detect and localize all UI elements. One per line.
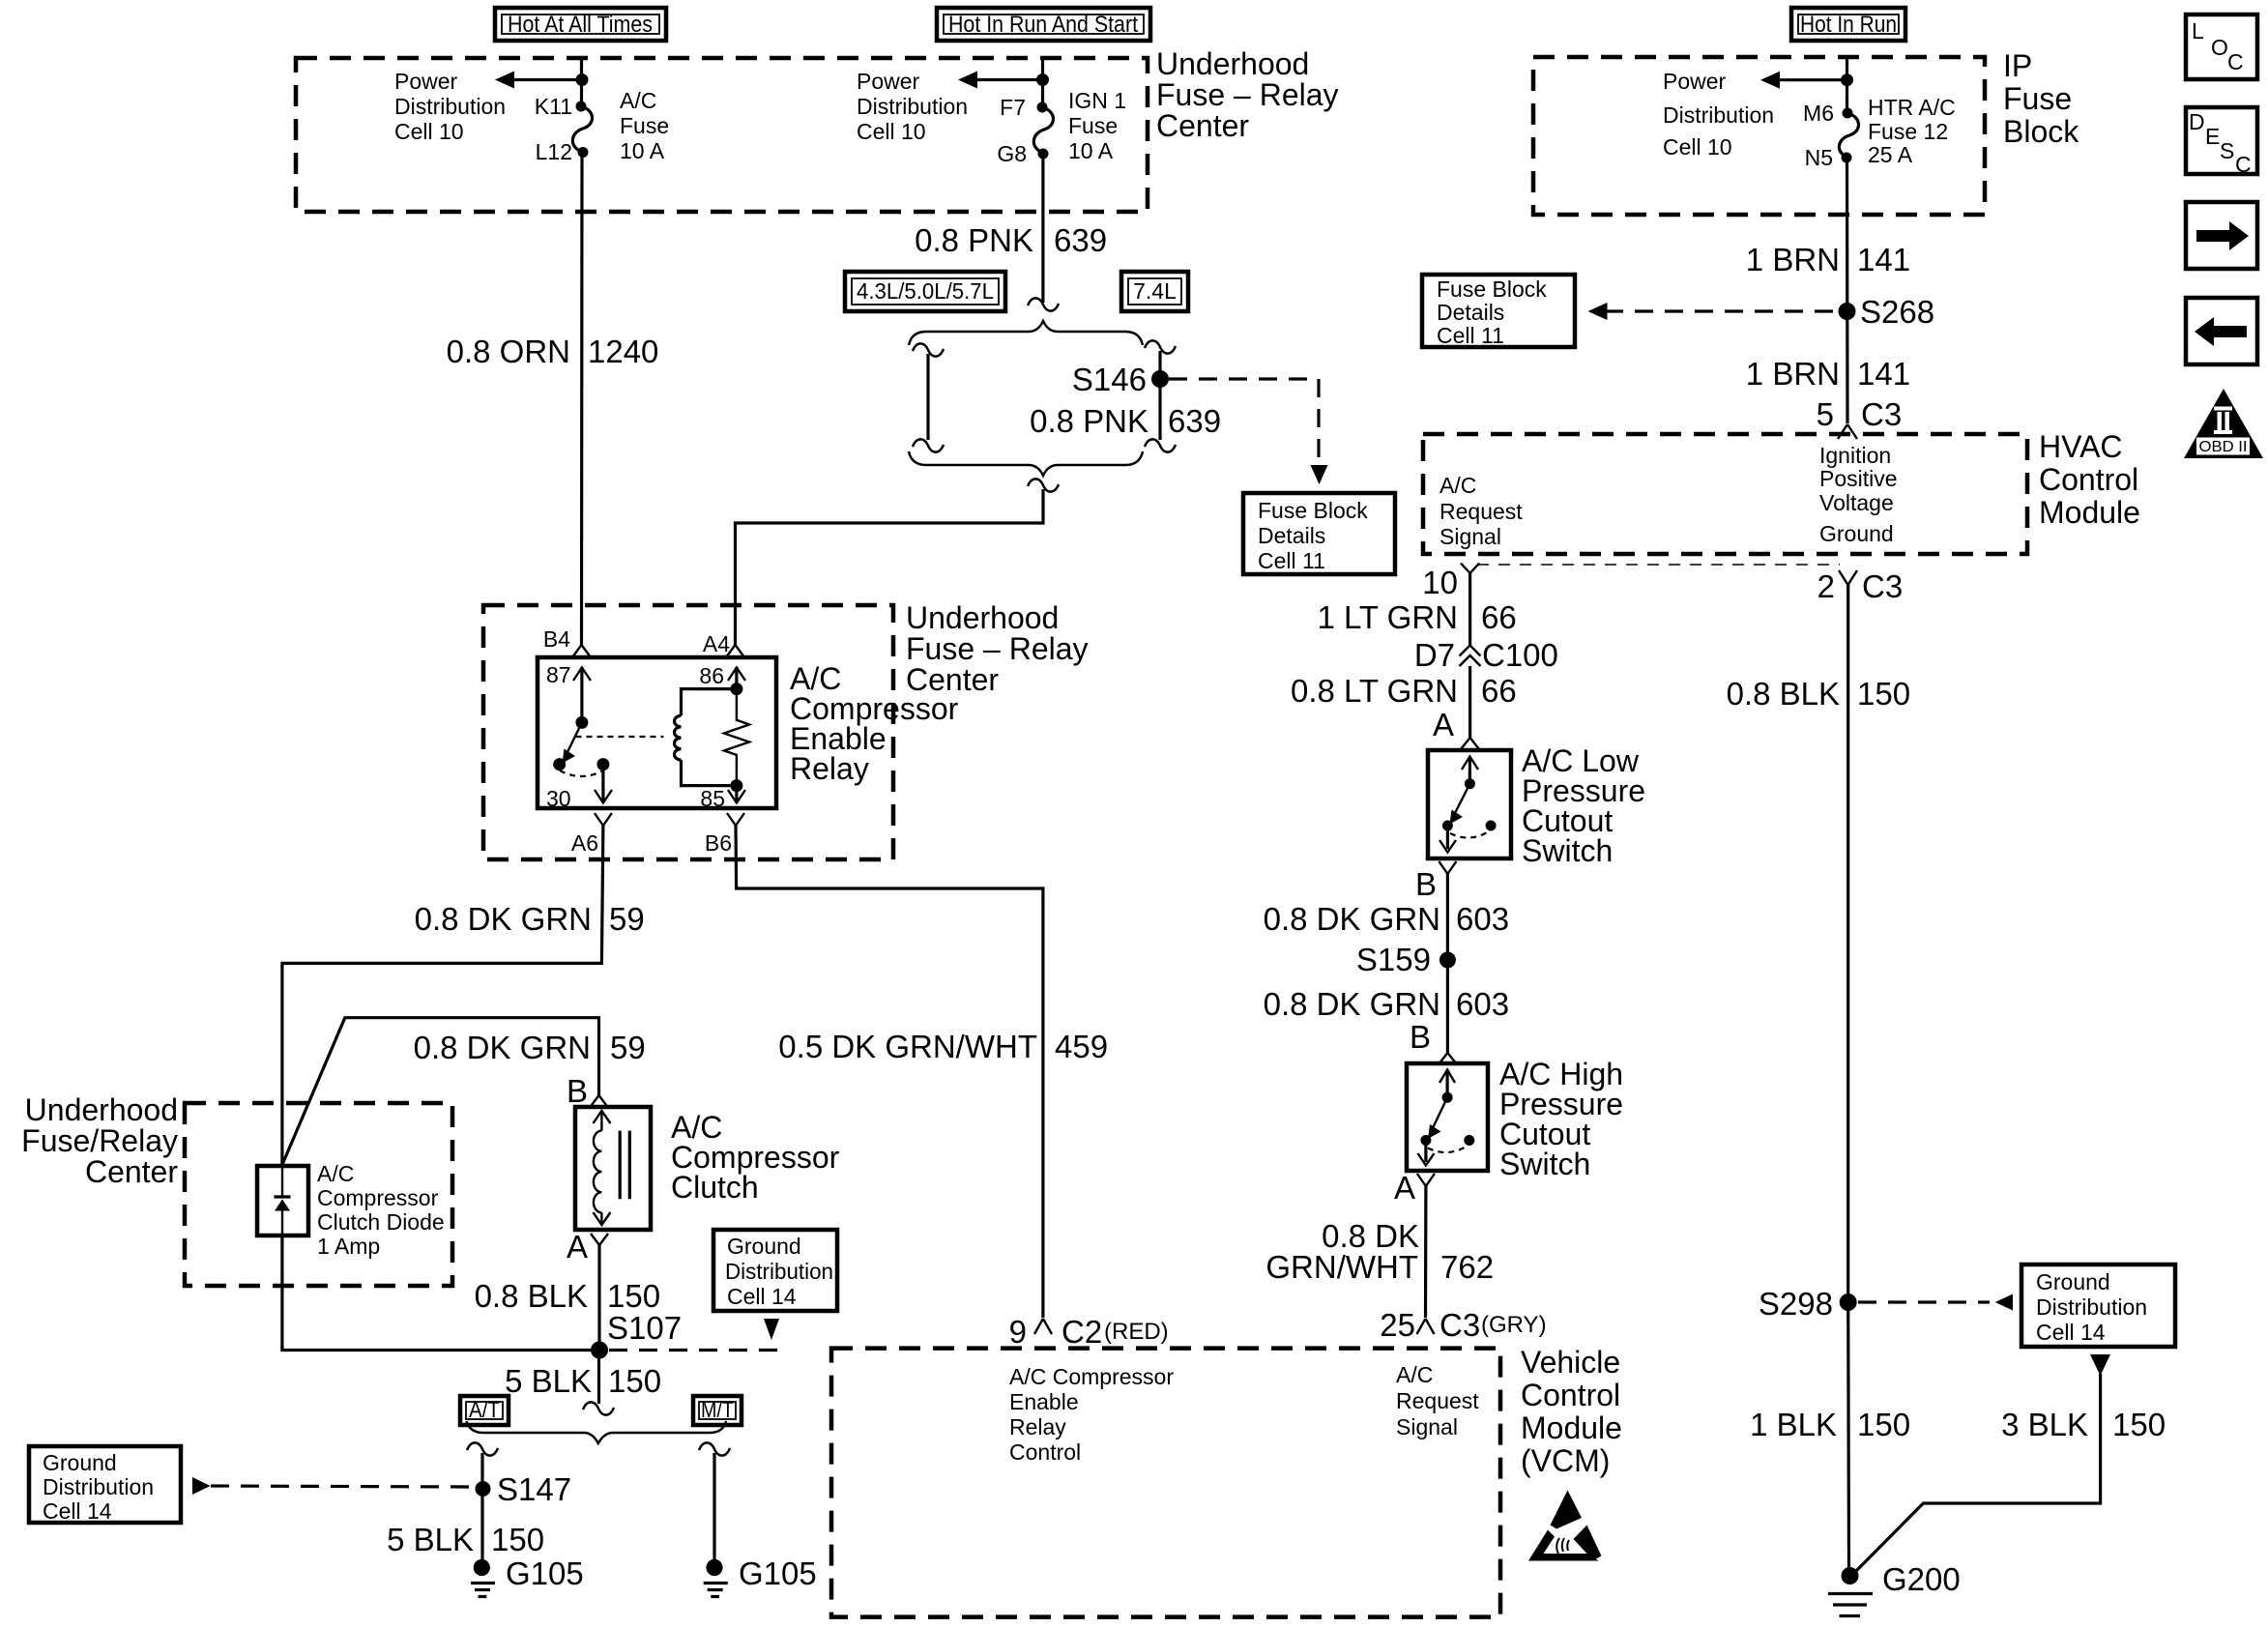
dashed reference from S107 to Ground Distribution bbox=[609, 1349, 779, 1352]
svg-text:Module: Module bbox=[1521, 1410, 1622, 1445]
relay common contact bbox=[575, 716, 588, 729]
wire A/T branch upper tilde bbox=[467, 1442, 498, 1455]
label 0.8 PNK 639 (upper) bbox=[915, 222, 1107, 258]
svg-text:A/C: A/C bbox=[317, 1161, 354, 1186]
wire M/T branch to ground bbox=[712, 1453, 715, 1568]
clutch coil element bbox=[594, 1111, 630, 1225]
wire A/T branch to S147 bbox=[480, 1453, 483, 1568]
label 1 BRN 141 (upper) bbox=[1746, 242, 1910, 277]
svg-text:639: 639 bbox=[1168, 403, 1221, 439]
svg-text:Ground: Ground bbox=[43, 1450, 117, 1475]
svg-text:Module: Module bbox=[2039, 495, 2140, 530]
svg-text:GRN/WHT: GRN/WHT bbox=[1265, 1249, 1418, 1285]
svg-text:Control: Control bbox=[1009, 1439, 1081, 1465]
svg-text:S146: S146 bbox=[1072, 362, 1147, 397]
svg-text:59: 59 bbox=[609, 901, 645, 937]
svg-text:Distribution: Distribution bbox=[857, 94, 968, 119]
svg-text:(GRY): (GRY) bbox=[1481, 1312, 1547, 1338]
svg-text:30: 30 bbox=[546, 786, 571, 811]
wire 1 BRN 141 from fuse to HVAC pin 5 bbox=[1846, 158, 1849, 423]
label IP Fuse Block bbox=[2003, 48, 2079, 149]
svg-text:C3: C3 bbox=[1861, 396, 1902, 432]
svg-text:A/C Compressor: A/C Compressor bbox=[1009, 1364, 1174, 1389]
svg-text:Ground: Ground bbox=[727, 1234, 801, 1259]
svg-text:Hot In Run And Start: Hot In Run And Start bbox=[948, 12, 1138, 38]
svg-text:0.5 DK GRN/WHT: 0.5 DK GRN/WHT bbox=[778, 1029, 1037, 1064]
label A/C Compressor Clutch bbox=[671, 1110, 840, 1205]
label Underhood Fuse/Relay Center bbox=[21, 1092, 178, 1189]
label HTR A/C Fuse 12 25 A bbox=[1868, 95, 1956, 167]
icon box DESC bbox=[2186, 107, 2257, 177]
label 0.5 DK GRN/WHT 459 bbox=[778, 1029, 1108, 1064]
dashed box Vehicle Control Module bbox=[831, 1349, 1500, 1617]
svg-text:1 Amp: 1 Amp bbox=[317, 1234, 380, 1259]
svg-text:G200: G200 bbox=[1882, 1561, 1961, 1597]
svg-text:Distribution: Distribution bbox=[43, 1474, 154, 1499]
svg-text:(VCM): (VCM) bbox=[1521, 1443, 1610, 1478]
svg-text:Fuse – Relay: Fuse – Relay bbox=[1156, 77, 1339, 112]
svg-text:Ground: Ground bbox=[2036, 1269, 2110, 1294]
relay coil bbox=[674, 689, 736, 786]
relay coil node upper bbox=[730, 683, 742, 695]
low switch internals bbox=[1439, 757, 1497, 853]
svg-text:IGN 1: IGN 1 bbox=[1068, 88, 1126, 113]
pin 5 C3 connector at HVAC bbox=[1817, 396, 1903, 439]
wire 5 BLK 150 below S107 bbox=[597, 1351, 600, 1405]
pin A connector at low pressure switch bbox=[1433, 707, 1479, 749]
svg-text:141: 141 bbox=[1857, 356, 1910, 392]
pin B connector at clutch bbox=[567, 1073, 608, 1109]
svg-text:Signal: Signal bbox=[1439, 524, 1501, 549]
wire 0.8 ORN 1240 from fuse L12 to relay B4 bbox=[580, 153, 584, 646]
svg-text:1 BRN: 1 BRN bbox=[1746, 356, 1840, 392]
wire 0.8 DK GRN/WHT 762 to VCM pin 25 bbox=[1424, 1186, 1428, 1318]
svg-text:5 BLK: 5 BLK bbox=[387, 1522, 474, 1557]
diode D1 A/C Compressor Clutch Diode box bbox=[257, 1166, 308, 1236]
svg-text:Underhood: Underhood bbox=[906, 600, 1059, 635]
svg-text:141: 141 bbox=[1857, 242, 1910, 277]
svg-text:A6: A6 bbox=[571, 830, 598, 856]
svg-text:150: 150 bbox=[608, 1363, 661, 1399]
relay pin A6 arrow down bbox=[595, 765, 612, 803]
wire right engine branch (7.4L) bbox=[1145, 340, 1176, 451]
svg-text:Distribution: Distribution bbox=[1663, 102, 1774, 128]
splice S146 bbox=[1151, 370, 1169, 388]
svg-text:603: 603 bbox=[1456, 986, 1509, 1022]
relay throw contact to A6 bbox=[596, 758, 609, 770]
svg-text:603: 603 bbox=[1456, 901, 1509, 937]
wire 0.8 DK GRN 603 low switch to S159 bbox=[1446, 874, 1449, 1053]
svg-text:0.8 PNK: 0.8 PNK bbox=[1030, 403, 1149, 439]
fuse F2 IGN 1 Fuse 10A element bbox=[1033, 107, 1053, 153]
switch SW1 A/C Low Pressure Cutout Switch box bbox=[1428, 750, 1511, 858]
relay K1 A/C Compressor Enable Relay box bbox=[538, 657, 776, 808]
svg-text:Signal: Signal bbox=[1396, 1414, 1458, 1439]
svg-text:25 A: 25 A bbox=[1868, 142, 1913, 167]
svg-text:A: A bbox=[567, 1229, 588, 1265]
relay actuation dashed link bbox=[576, 736, 664, 738]
svg-text:Fuse Block: Fuse Block bbox=[1437, 276, 1547, 302]
ground G105 (A/T) bbox=[471, 1555, 584, 1597]
svg-text:L: L bbox=[2192, 18, 2204, 44]
svg-text:A/C: A/C bbox=[620, 88, 656, 113]
wire 0.8 DK GRN 59 from relay A6 to diode bbox=[282, 826, 603, 1166]
svg-text:A/C: A/C bbox=[1396, 1362, 1433, 1387]
label 5 BLK 150 (A/T) bbox=[387, 1522, 544, 1557]
svg-text:1 LT GRN: 1 LT GRN bbox=[1318, 599, 1459, 635]
brace transmission split bbox=[467, 1421, 727, 1443]
svg-text:B: B bbox=[1415, 866, 1437, 902]
dashed box HVAC Control Module bbox=[1423, 434, 2027, 554]
svg-text:Fuse 12: Fuse 12 bbox=[1868, 119, 1948, 144]
connector C100 pass-through D7 bbox=[1414, 637, 1558, 673]
icon box arrow right bbox=[2186, 202, 2257, 269]
arrow to Power Distribution (right) bbox=[1760, 72, 1847, 89]
svg-text:C: C bbox=[2227, 49, 2244, 74]
label A/C Request Signal (VCM) bbox=[1396, 1362, 1479, 1439]
splice S107 bbox=[591, 1342, 608, 1359]
label 1 LT GRN 66 bbox=[1318, 599, 1517, 635]
svg-text:639: 639 bbox=[1054, 222, 1107, 258]
svg-text:HTR A/C: HTR A/C bbox=[1868, 95, 1956, 120]
node K11 bbox=[576, 102, 587, 112]
label Underhood Fuse - Relay Center (top) bbox=[1156, 46, 1339, 143]
label A/C Compressor Enable Relay Control (VCM) bbox=[1009, 1364, 1174, 1465]
relay resistor bbox=[724, 689, 749, 786]
fuse F1 A/C Fuse 10A element bbox=[572, 106, 592, 152]
svg-text:Clutch Diode: Clutch Diode bbox=[317, 1209, 445, 1235]
svg-text:Cell 11: Cell 11 bbox=[1258, 548, 1325, 573]
svg-text:85: 85 bbox=[700, 786, 725, 811]
label A/C Compressor Clutch Diode 1 Amp bbox=[317, 1161, 445, 1259]
label 0.8 BLK 150 (right) bbox=[1727, 676, 1910, 712]
wire 0.8 PNK 639 from G8 down to engine split bbox=[1041, 154, 1044, 303]
svg-text:Fuse Block: Fuse Block bbox=[1258, 498, 1368, 523]
svg-text:S268: S268 bbox=[1860, 294, 1934, 330]
label A/C Request Signal (HVAC) bbox=[1439, 473, 1523, 549]
svg-text:Fuse/Relay: Fuse/Relay bbox=[21, 1123, 178, 1158]
pin 25 C3 connector at VCM bbox=[1380, 1307, 1546, 1343]
svg-text:66: 66 bbox=[1481, 599, 1517, 635]
pin A4 connector at relay bbox=[703, 631, 744, 657]
svg-text:A: A bbox=[1394, 1170, 1415, 1206]
icon ESD sensitivity symbol bbox=[1528, 1491, 1602, 1561]
svg-text:Cell 14: Cell 14 bbox=[727, 1284, 797, 1309]
svg-text:Cell 10: Cell 10 bbox=[857, 119, 926, 144]
pin B connector at high pressure switch bbox=[1410, 1019, 1457, 1064]
arrow to Power Distribution (left) bbox=[495, 72, 582, 89]
pin 2 C3 connector at HVAC bbox=[1817, 568, 1904, 604]
svg-text:Relay: Relay bbox=[790, 751, 869, 786]
svg-text:5 BLK: 5 BLK bbox=[505, 1363, 592, 1399]
icon OBD II triangle bbox=[2184, 389, 2263, 458]
svg-text:A4: A4 bbox=[703, 631, 730, 656]
wire diode to S107 bbox=[282, 1236, 591, 1351]
svg-text:Cell 10: Cell 10 bbox=[1663, 134, 1732, 160]
pin 10 connector at HVAC bbox=[1422, 564, 1479, 601]
svg-text:3 BLK: 3 BLK bbox=[2001, 1407, 2088, 1442]
svg-text:Distribution: Distribution bbox=[2036, 1294, 2147, 1320]
svg-text:7.4L: 7.4L bbox=[1133, 278, 1177, 304]
svg-text:Underhood: Underhood bbox=[25, 1092, 178, 1127]
svg-text:S107: S107 bbox=[607, 1310, 682, 1346]
svg-text:Enable: Enable bbox=[1009, 1389, 1079, 1414]
svg-text:Fuse: Fuse bbox=[1068, 113, 1118, 138]
svg-text:Vehicle: Vehicle bbox=[1521, 1345, 1620, 1380]
splice S268 bbox=[1839, 303, 1856, 320]
svg-text:F7: F7 bbox=[1000, 95, 1026, 120]
wire from Hot In Run into fuse bbox=[1846, 58, 1848, 113]
svg-text:C: C bbox=[2235, 152, 2252, 177]
reference box Fuse Block Details Cell 11 (lower) bbox=[1243, 493, 1395, 574]
label IGN 1 Fuse 10 A bbox=[1068, 88, 1126, 163]
svg-text:S298: S298 bbox=[1759, 1286, 1833, 1322]
pin A6 connector below relay bbox=[571, 813, 612, 856]
label 1 BRN 141 (lower) bbox=[1746, 356, 1910, 392]
label Power Distribution Cell 10 (right) bbox=[1663, 69, 1774, 160]
A/C Compressor Clutch box bbox=[575, 1107, 651, 1230]
label 0.8 DK GRN 59 (lower) bbox=[414, 1030, 646, 1065]
dashed box IP Fuse Block bbox=[1533, 57, 1985, 215]
svg-text:B: B bbox=[1410, 1019, 1431, 1055]
node L12 bbox=[578, 147, 589, 158]
relay pin 85 arrow down bbox=[700, 786, 745, 811]
header box Hot In Run And Start bbox=[937, 8, 1150, 41]
svg-text:10 A: 10 A bbox=[1068, 138, 1114, 163]
label 0.8 DK GRN 603 (lower) bbox=[1264, 986, 1509, 1022]
svg-text:OBD II: OBD II bbox=[2199, 439, 2248, 455]
label A/C Fuse 10 A bbox=[620, 88, 669, 163]
svg-text:Switch: Switch bbox=[1522, 833, 1613, 868]
svg-text:HVAC: HVAC bbox=[2039, 429, 2123, 464]
svg-text:A/C: A/C bbox=[1439, 473, 1476, 498]
svg-text:Cell 11: Cell 11 bbox=[1437, 323, 1504, 348]
node F7 bbox=[1037, 102, 1048, 113]
svg-text:762: 762 bbox=[1440, 1249, 1494, 1285]
label Underhood Fuse - Relay Center (relay) bbox=[906, 600, 1089, 697]
svg-text:M/T: M/T bbox=[701, 1397, 734, 1422]
svg-text:1240: 1240 bbox=[588, 334, 658, 369]
svg-text:10 A: 10 A bbox=[620, 138, 665, 163]
svg-text:D7: D7 bbox=[1414, 637, 1455, 673]
svg-text:25: 25 bbox=[1380, 1307, 1415, 1343]
wire 3 BLK 150 from Ground Distribution to G200 bbox=[1853, 1374, 2101, 1574]
svg-text:Cell 14: Cell 14 bbox=[2036, 1320, 2106, 1345]
svg-text:S159: S159 bbox=[1356, 942, 1431, 977]
relay coil node lower bbox=[730, 779, 742, 792]
label 0.8 DK GRN 603 (upper) bbox=[1264, 901, 1509, 937]
svg-text:Clutch: Clutch bbox=[671, 1170, 759, 1205]
svg-text:1 BLK: 1 BLK bbox=[1750, 1407, 1837, 1442]
svg-text:4.3L/5.0L/5.7L: 4.3L/5.0L/5.7L bbox=[857, 278, 994, 304]
wire 0.5 DK GRN/WHT 459 from relay B6 to VCM pin 9 bbox=[736, 826, 1043, 1318]
svg-text:Center: Center bbox=[85, 1154, 178, 1189]
brace upper engine split bbox=[909, 321, 1143, 345]
svg-text:G105: G105 bbox=[739, 1555, 817, 1591]
wire branch to clutch B bbox=[283, 1018, 599, 1164]
ground G200 bbox=[1828, 1561, 1961, 1616]
svg-text:Cell 10: Cell 10 bbox=[394, 119, 464, 144]
label 1 BLK 150 bbox=[1750, 1407, 1910, 1442]
dashed box Underhood Fuse/Relay Center (diode) bbox=[185, 1103, 452, 1286]
svg-text:K11: K11 bbox=[535, 94, 572, 119]
svg-text:S147: S147 bbox=[497, 1471, 571, 1507]
splice S159 bbox=[1439, 952, 1456, 969]
svg-text:0.8 PNK: 0.8 PNK bbox=[915, 222, 1033, 258]
dashed box Underhood Fuse-Relay Center (top) bbox=[296, 58, 1148, 212]
label Vehicle Control Module (VCM) bbox=[1521, 1345, 1622, 1478]
svg-text:Ignition: Ignition bbox=[1819, 443, 1891, 468]
pin A connector at clutch bbox=[567, 1229, 608, 1265]
svg-text:0.8 DK GRN: 0.8 DK GRN bbox=[414, 1030, 591, 1065]
svg-text:O: O bbox=[2211, 35, 2228, 60]
ground G105 (M/T) bbox=[704, 1555, 817, 1597]
svg-text:10: 10 bbox=[1422, 565, 1458, 600]
svg-text:G8: G8 bbox=[997, 141, 1027, 166]
engine option box 4.3L/5.0L/5.7L bbox=[845, 272, 1005, 311]
label Ignition Positive Voltage / Ground (HVAC) bbox=[1819, 443, 1898, 546]
label 0.8 PNK 639 (at S146 branch) bbox=[1030, 403, 1221, 439]
svg-text:Request: Request bbox=[1439, 499, 1523, 524]
svg-text:C3: C3 bbox=[1862, 568, 1903, 604]
svg-text:150: 150 bbox=[491, 1522, 544, 1557]
svg-text:Details: Details bbox=[1437, 300, 1504, 325]
icon box arrow left bbox=[2186, 298, 2257, 364]
wire left engine branch bbox=[913, 343, 944, 451]
svg-text:459: 459 bbox=[1055, 1029, 1108, 1064]
relay switch arm bbox=[563, 722, 582, 763]
svg-text:B: B bbox=[567, 1073, 588, 1109]
svg-text:0.8 DK GRN: 0.8 DK GRN bbox=[1264, 901, 1440, 937]
reference box Ground Distribution Cell 14 (right) bbox=[2021, 1265, 2175, 1376]
label Power Distribution Cell 10 (left) bbox=[394, 69, 506, 144]
svg-text:Hot At All Times: Hot At All Times bbox=[508, 12, 653, 38]
svg-text:Block: Block bbox=[2003, 114, 2079, 149]
arrow to Power Distribution (mid) bbox=[958, 72, 1044, 89]
svg-text:A/T: A/T bbox=[469, 1397, 500, 1422]
wire 0.8 LT GRN 66 from C100 to low pressure switch bbox=[1468, 666, 1471, 738]
wire 0.8 BLK 150 clutch to S107 bbox=[597, 1245, 600, 1351]
svg-text:C100: C100 bbox=[1482, 637, 1558, 673]
svg-text:Fuse: Fuse bbox=[620, 113, 669, 138]
splice S298 bbox=[1840, 1294, 1857, 1311]
svg-text:0.8 ORN: 0.8 ORN bbox=[447, 334, 570, 369]
svg-text:150: 150 bbox=[607, 1278, 660, 1314]
svg-text:150: 150 bbox=[2112, 1407, 2166, 1442]
svg-text:Underhood: Underhood bbox=[1156, 46, 1309, 81]
svg-text:9: 9 bbox=[1009, 1314, 1027, 1350]
pin B4 connector at relay bbox=[543, 626, 591, 657]
reference box Ground Distribution Cell 14 (left) bbox=[29, 1446, 181, 1524]
relay pin 86 bbox=[699, 663, 745, 689]
node M6 bbox=[1843, 108, 1853, 119]
svg-text:L12: L12 bbox=[536, 139, 572, 164]
dashed box Underhood Fuse-Relay Center (relay) bbox=[483, 605, 893, 859]
dashed throw arc bbox=[560, 770, 603, 776]
label 0.8 BLK 150 bbox=[475, 1278, 660, 1314]
svg-text:Distribution: Distribution bbox=[394, 94, 506, 119]
splice S147 bbox=[476, 1481, 491, 1497]
svg-text:IP: IP bbox=[2003, 48, 2032, 83]
node junction at A/C fuse feed bbox=[576, 73, 589, 86]
pin 9 C2 connector at VCM bbox=[1009, 1314, 1169, 1350]
svg-text:Fuse – Relay: Fuse – Relay bbox=[906, 631, 1089, 666]
svg-text:B4: B4 bbox=[543, 626, 570, 652]
wire break tilde above engine brace bbox=[1028, 298, 1059, 310]
svg-text:(RED): (RED) bbox=[1104, 1319, 1169, 1345]
svg-text:0.8 DK GRN: 0.8 DK GRN bbox=[415, 901, 592, 937]
wire 0.8 BLK 150 from HVAC pin 2 to S298 bbox=[1846, 584, 1849, 1302]
label HVAC Control Module bbox=[2039, 429, 2140, 530]
svg-text:Control: Control bbox=[1521, 1378, 1620, 1412]
svg-text:Center: Center bbox=[1156, 108, 1249, 143]
svg-text:Power: Power bbox=[1663, 69, 1727, 94]
label A/C Compressor Enable Relay bbox=[790, 661, 959, 786]
svg-text:A: A bbox=[1433, 707, 1454, 742]
engine option box 7.4L bbox=[1121, 272, 1188, 311]
svg-text:C2: C2 bbox=[1061, 1314, 1102, 1350]
svg-text:M6: M6 bbox=[1803, 101, 1834, 126]
label 0.8 DK GRN/WHT 762 bbox=[1265, 1218, 1494, 1285]
label A/C Low Pressure Cutout Switch bbox=[1522, 743, 1645, 868]
high switch internals bbox=[1418, 1070, 1475, 1166]
wire M/T branch upper tilde bbox=[699, 1442, 730, 1455]
svg-text:N5: N5 bbox=[1805, 145, 1833, 170]
label 3 BLK 150 bbox=[2001, 1407, 2166, 1442]
wire 1 LT GRN 66 from HVAC pin 10 to C100 bbox=[1468, 572, 1471, 645]
reference box Fuse Block Details Cell 11 (upper) bbox=[1422, 275, 1575, 348]
svg-text:2: 2 bbox=[1817, 568, 1835, 604]
svg-text:5: 5 bbox=[1817, 396, 1834, 432]
option box A/T bbox=[460, 1396, 509, 1425]
label 0.8 LT GRN 66 bbox=[1291, 673, 1517, 709]
svg-text:E: E bbox=[2205, 124, 2220, 149]
label A/C High Pressure Cutout Switch bbox=[1499, 1057, 1623, 1181]
svg-text:C3: C3 bbox=[1439, 1307, 1480, 1343]
dashed reference from Ground Distribution to S147 bbox=[192, 1477, 474, 1495]
header box Hot At All Times bbox=[495, 8, 666, 41]
svg-text:0.8 BLK: 0.8 BLK bbox=[475, 1278, 588, 1314]
dashed reference from S268 to Fuse Block Details bbox=[1588, 303, 1839, 320]
svg-text:Ground: Ground bbox=[1819, 521, 1894, 546]
svg-text:Positive: Positive bbox=[1819, 466, 1898, 491]
wire break tilde below merge bbox=[1028, 479, 1059, 491]
label 0.8 ORN 1240 bbox=[447, 334, 659, 369]
diode symbol bbox=[275, 1166, 291, 1236]
svg-text:Hot In Run: Hot In Run bbox=[1800, 12, 1897, 38]
option box M/T bbox=[693, 1396, 741, 1425]
svg-text:Power: Power bbox=[394, 69, 458, 94]
svg-text:Fuse: Fuse bbox=[2003, 81, 2072, 116]
relay pin 87 bbox=[546, 662, 591, 722]
svg-text:86: 86 bbox=[699, 663, 724, 688]
wire from Hot At All Times into fuse bbox=[580, 58, 583, 106]
svg-text:87: 87 bbox=[546, 662, 571, 687]
label 0.8 DK GRN 59 (upper) bbox=[415, 901, 645, 937]
reference box Ground Distribution Cell 14 (mid) bbox=[713, 1230, 837, 1340]
fuse F3 HTR A/C Fuse 12 element bbox=[1839, 113, 1858, 158]
wire break tilde above transmission brace bbox=[583, 1402, 614, 1414]
svg-text:Power: Power bbox=[857, 69, 920, 94]
wire from Hot In Run And Start into fuse bbox=[1041, 58, 1044, 107]
svg-text:0.8 BLK: 0.8 BLK bbox=[1727, 676, 1840, 712]
connector face line C3 under HVAC bbox=[1477, 564, 1840, 566]
node junction at HTR A/C feed bbox=[1841, 73, 1853, 86]
dashed reference from S298 to Ground Distribution bbox=[1858, 1294, 2013, 1311]
svg-text:S: S bbox=[2220, 138, 2234, 163]
relay pin 30 contact bbox=[553, 758, 566, 770]
svg-text:Control: Control bbox=[2039, 462, 2138, 497]
